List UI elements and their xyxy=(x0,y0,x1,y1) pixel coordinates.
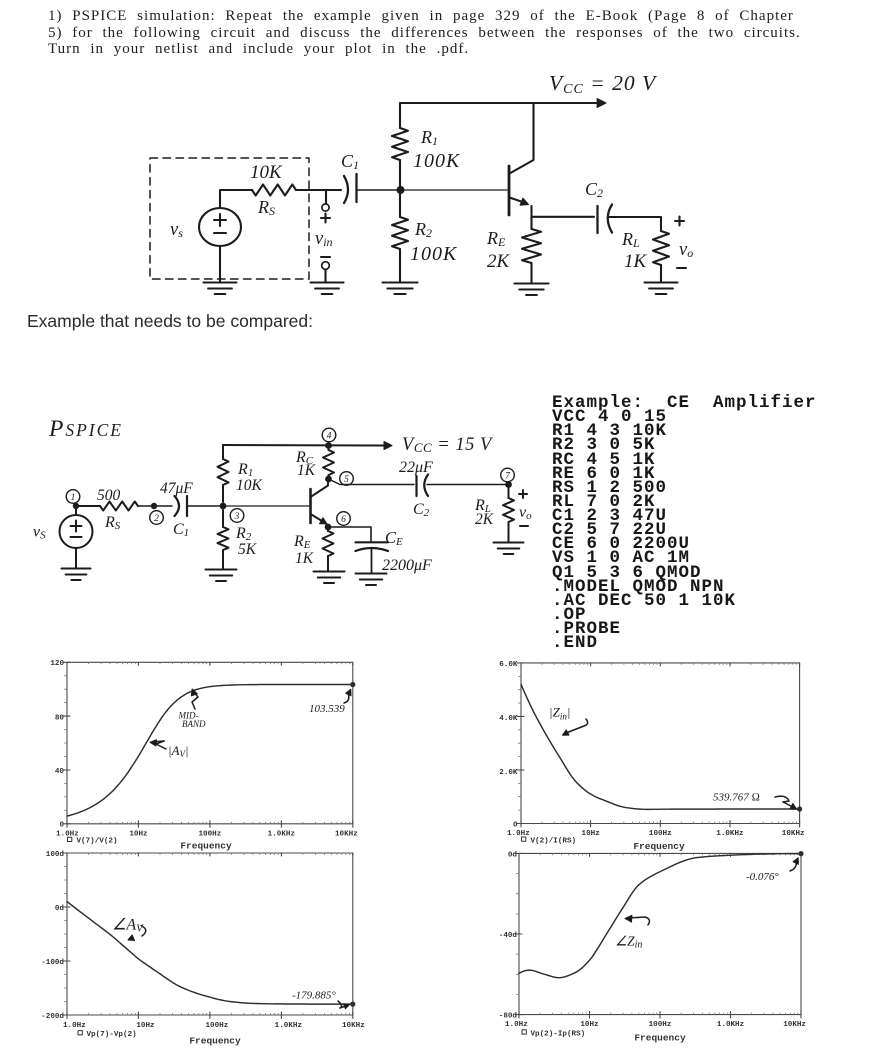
svg-text:C2: C2 xyxy=(413,501,430,519)
wire vs to rs xyxy=(76,506,100,515)
svg-text:V(7)/V(2): V(7)/V(2) xyxy=(77,838,118,846)
svg-text:1.0Hz: 1.0Hz xyxy=(63,1022,86,1030)
node 3 xyxy=(220,503,227,510)
svg-text:10Hz: 10Hz xyxy=(582,830,600,838)
svg-text:Frequency: Frequency xyxy=(633,841,685,852)
resistor RE xyxy=(530,217,532,229)
svg-text:0d: 0d xyxy=(508,851,518,859)
vin minus terminal xyxy=(321,257,330,282)
svg-text:|Zin|: |Zin| xyxy=(549,705,570,722)
wire C2 to RL xyxy=(609,217,661,231)
source VS xyxy=(199,208,241,246)
wire base xyxy=(400,189,507,191)
svg-text:vs: vs xyxy=(170,220,183,240)
svg-text:RE: RE xyxy=(486,228,506,249)
resistor R1 xyxy=(399,103,401,128)
svg-text:C2: C2 xyxy=(585,179,603,200)
wire collector to C2 mid xyxy=(329,479,415,485)
svg-text:R1: R1 xyxy=(420,127,438,148)
ground under R2 mid xyxy=(206,570,237,582)
capacitor C1 mid xyxy=(175,496,188,516)
capacitor C2 xyxy=(598,205,613,234)
plot4 endpoint dot xyxy=(798,851,803,856)
svg-text:2: 2 xyxy=(154,514,159,524)
ground under RL mid xyxy=(494,543,524,555)
plot2 Zin curve xyxy=(521,684,800,809)
svg-text:100Hz: 100Hz xyxy=(649,830,672,838)
plot1 frame gain magnitude xyxy=(63,662,353,827)
svg-text:6.0K: 6.0K xyxy=(499,661,518,669)
svg-text:-80d: -80d xyxy=(499,1013,518,1021)
svg-text:10KHz: 10KHz xyxy=(782,830,805,838)
plot3 legend Vp(7)-Vp(2) xyxy=(78,1031,82,1035)
svg-text:-200d: -200d xyxy=(41,1013,64,1021)
svg-text:VCC = 15 V: VCC = 15 V xyxy=(402,435,494,455)
svg-text:C1: C1 xyxy=(173,521,189,539)
plot3 endpoint dot xyxy=(350,1002,355,1007)
svg-text:100Hz: 100Hz xyxy=(199,830,222,838)
svg-text:C1: C1 xyxy=(341,151,359,172)
capacitor CE xyxy=(356,542,389,573)
wire RS to C1 xyxy=(296,189,341,191)
svg-text:2K: 2K xyxy=(487,251,511,272)
svg-text:2200μF: 2200μF xyxy=(382,557,432,574)
label vo plus minus xyxy=(675,217,684,226)
source dashed box xyxy=(150,158,309,279)
svg-text:∠AV: ∠AV xyxy=(112,917,144,935)
plot2 legend V(2)/I(RS) xyxy=(522,837,526,841)
ground under RL xyxy=(645,283,678,295)
svg-text:1.0KHz: 1.0KHz xyxy=(716,830,743,838)
svg-text:PSPICE: PSPICE xyxy=(48,416,123,442)
svg-text:vS: vS xyxy=(33,524,46,542)
Vcc rail mid xyxy=(223,444,384,447)
svg-text:vo: vo xyxy=(679,240,693,260)
svg-text:R2: R2 xyxy=(414,219,432,240)
svg-text:Frequency: Frequency xyxy=(189,1036,241,1047)
svg-text:Vp(7)-Vp(2): Vp(7)-Vp(2) xyxy=(87,1031,137,1039)
svg-text:500: 500 xyxy=(97,487,121,504)
svg-text:539.767 Ω: 539.767 Ω xyxy=(713,792,760,804)
resistor RS mid xyxy=(100,502,138,511)
svg-text:103.539: 103.539 xyxy=(309,703,345,715)
svg-text:Frequency: Frequency xyxy=(180,841,232,852)
svg-text:|AV|: |AV| xyxy=(168,743,189,759)
plot2 endpoint dot xyxy=(797,806,802,811)
svg-text:1K: 1K xyxy=(624,251,648,272)
source VS mid xyxy=(60,515,93,548)
resistor RL mid xyxy=(508,485,510,499)
wire C2 to node7 xyxy=(427,484,509,486)
svg-text:4.0K: 4.0K xyxy=(499,715,518,723)
svg-text:1.0Hz: 1.0Hz xyxy=(505,1021,528,1029)
wire rs to c1 xyxy=(138,505,172,507)
svg-text:100Hz: 100Hz xyxy=(206,1022,229,1030)
svg-text:100K: 100K xyxy=(413,150,461,172)
svg-text:100K: 100K xyxy=(410,243,458,265)
svg-text:100Hz: 100Hz xyxy=(649,1021,672,1029)
svg-text:1.0KHz: 1.0KHz xyxy=(275,1022,302,1030)
svg-text:3: 3 xyxy=(234,512,240,522)
plot4 legend Vp(2)-Ip(RS) xyxy=(522,1030,526,1034)
svg-text:1.0KHz: 1.0KHz xyxy=(717,1021,744,1029)
ground under VS mid xyxy=(75,548,77,568)
ground under vin xyxy=(311,283,344,295)
svg-text:120: 120 xyxy=(50,660,64,668)
svg-text:-0.076°: -0.076° xyxy=(746,871,779,883)
svg-text:VCC = 20 V: VCC = 20 V xyxy=(549,71,658,97)
svg-text:6: 6 xyxy=(341,515,346,525)
svg-text:0d: 0d xyxy=(55,905,65,913)
ground under CE xyxy=(356,574,387,586)
node base junction xyxy=(397,186,405,194)
resistor RE mid xyxy=(327,527,329,531)
resistor RL xyxy=(653,231,669,265)
svg-text:5K: 5K xyxy=(238,541,257,558)
svg-text:80: 80 xyxy=(55,714,65,722)
svg-text:0: 0 xyxy=(59,822,64,830)
capacitor C2 mid xyxy=(417,475,429,497)
svg-text:47μF: 47μF xyxy=(160,480,193,497)
svg-text:1K: 1K xyxy=(297,462,316,479)
resistor R2 xyxy=(399,194,401,217)
emitter node 6 xyxy=(325,524,332,531)
svg-text:∠Zin: ∠Zin xyxy=(615,934,642,951)
svg-text:2.0K: 2.0K xyxy=(499,769,518,777)
svg-text:1: 1 xyxy=(71,493,76,503)
svg-text:1K: 1K xyxy=(295,550,314,567)
svg-text:2K: 2K xyxy=(475,511,494,528)
svg-text:-40d: -40d xyxy=(499,932,518,940)
ground under RE mid xyxy=(314,572,345,584)
wire C1 to base node xyxy=(357,189,401,191)
resistor RC mid xyxy=(328,446,330,451)
svg-text:10Hz: 10Hz xyxy=(136,1022,154,1030)
wire emitter to C2 xyxy=(532,216,595,218)
wire emitter to CE xyxy=(328,527,371,542)
svg-text:Frequency: Frequency xyxy=(634,1032,686,1043)
svg-text:5: 5 xyxy=(344,475,349,485)
node 4 xyxy=(325,442,332,449)
svg-text:10K: 10K xyxy=(236,477,263,494)
transistor Q1 mid xyxy=(311,481,329,524)
svg-text:V(2)/I(RS): V(2)/I(RS) xyxy=(531,838,577,846)
plot3 frame gain phase xyxy=(63,853,353,1019)
resistor R1 mid xyxy=(222,445,224,459)
svg-text:Vp(2)-Ip(RS): Vp(2)-Ip(RS) xyxy=(531,1031,586,1039)
ground under RE xyxy=(515,284,549,296)
svg-text:10KHz: 10KHz xyxy=(335,830,358,838)
wire VS to RS xyxy=(220,190,252,208)
svg-text:1.0KHz: 1.0KHz xyxy=(268,830,295,838)
node 7 xyxy=(505,481,512,488)
plot3 phase curve xyxy=(67,902,353,1005)
ground under R2 xyxy=(383,283,418,295)
node 5 collector xyxy=(325,476,332,483)
plot1 annotation MID-BAND xyxy=(191,689,198,709)
plot2 frame input impedance xyxy=(517,663,800,827)
node 1 xyxy=(66,490,80,504)
plot4 phase curve xyxy=(519,854,801,978)
capacitor C1 xyxy=(344,174,357,203)
svg-text:-179.885°: -179.885° xyxy=(292,990,336,1002)
svg-text:RS: RS xyxy=(257,197,275,218)
svg-text:CE: CE xyxy=(385,528,403,548)
svg-text:0: 0 xyxy=(513,821,518,829)
node 2 xyxy=(151,503,157,509)
svg-text:RE: RE xyxy=(293,533,311,551)
svg-text:RL: RL xyxy=(621,229,640,250)
svg-text:BAND: BAND xyxy=(182,719,206,729)
svg-text:vo: vo xyxy=(519,504,532,522)
svg-text:10KHz: 10KHz xyxy=(342,1022,365,1030)
svg-text:vin: vin xyxy=(315,229,333,249)
plot1 gain curve xyxy=(67,685,353,817)
svg-text:7: 7 xyxy=(505,471,511,481)
wire node3 to base xyxy=(223,505,309,507)
resistor R2 mid xyxy=(222,510,224,527)
svg-text:100d: 100d xyxy=(46,851,65,859)
plot1 endpoint dot xyxy=(350,682,355,687)
svg-text:10KHz: 10KHz xyxy=(783,1021,806,1029)
svg-text:-100d: -100d xyxy=(41,959,64,967)
svg-text:40: 40 xyxy=(55,768,65,776)
svg-text:10Hz: 10Hz xyxy=(580,1021,598,1029)
svg-text:22μF: 22μF xyxy=(399,459,433,476)
svg-text:10K: 10K xyxy=(250,162,283,183)
node vin terminal xyxy=(321,190,330,223)
transistor Q xyxy=(509,103,534,217)
plot1 legend V(7)/V(2) xyxy=(68,837,72,841)
label vo plus minus mid xyxy=(519,490,527,498)
Vcc rail with arrow xyxy=(400,102,598,104)
wire c1 to node3 xyxy=(187,505,223,507)
plot4 frame Zin phase xyxy=(515,853,801,1018)
resistor RS xyxy=(252,185,296,196)
svg-text:1.0Hz: 1.0Hz xyxy=(507,830,530,838)
svg-text:10Hz: 10Hz xyxy=(129,830,147,838)
ground under VS xyxy=(219,246,221,282)
svg-text:RS: RS xyxy=(104,514,121,532)
svg-text:4: 4 xyxy=(327,431,332,441)
